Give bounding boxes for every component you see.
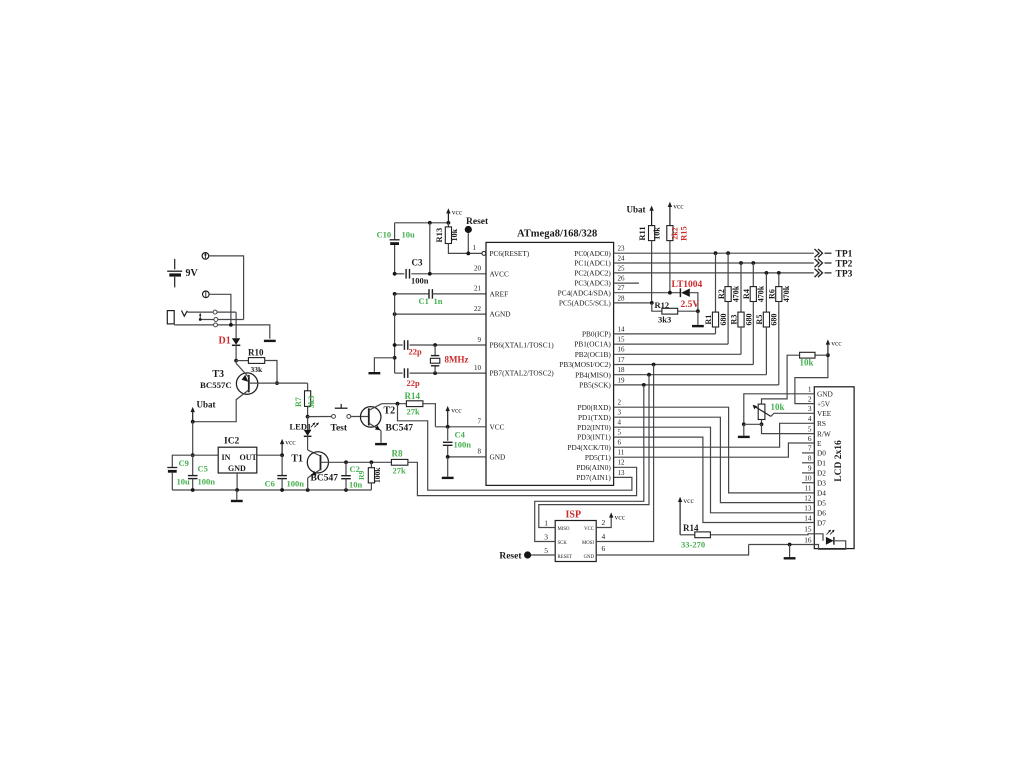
svg-text:R4: R4 bbox=[742, 289, 751, 299]
node C10 top bbox=[428, 221, 432, 225]
svg-text:TP1: TP1 bbox=[836, 250, 853, 260]
wire PD1 to LCD D5 bbox=[614, 417, 815, 502]
svg-text:PC4(ADC4/SDA): PC4(ADC4/SDA) bbox=[558, 288, 612, 297]
svg-text:13: 13 bbox=[804, 504, 812, 513]
svg-text:C3: C3 bbox=[412, 258, 423, 268]
wire PD2 to LCD D6 bbox=[614, 427, 815, 513]
svg-text:GND: GND bbox=[817, 390, 833, 399]
capacitor C6 100n bbox=[281, 455, 283, 475]
pin1 inversion bubble bbox=[482, 251, 486, 255]
svg-text:R5: R5 bbox=[755, 315, 764, 325]
wire LCD GND pin1 bbox=[744, 394, 815, 425]
wire VCC to LCD +5V pin2 bbox=[795, 355, 828, 403]
svg-text:14: 14 bbox=[804, 513, 812, 522]
svg-text:VEE: VEE bbox=[817, 409, 832, 418]
jack switch contact row bbox=[188, 311, 214, 313]
svg-text:PD7(AIN1): PD7(AIN1) bbox=[576, 473, 611, 482]
svg-text:4: 4 bbox=[808, 414, 812, 423]
capacitor C1 1n bbox=[395, 293, 429, 295]
wire PD3 to LCD D7 bbox=[614, 437, 815, 522]
svg-text:4: 4 bbox=[618, 419, 622, 427]
svg-text:1n: 1n bbox=[434, 296, 443, 306]
wire terminal1 to jack middle contact bbox=[209, 256, 244, 320]
svg-text:10k: 10k bbox=[450, 228, 459, 241]
svg-text:680: 680 bbox=[719, 314, 728, 326]
wire T2 collector to PD7 bbox=[398, 404, 632, 491]
svg-text:3k3: 3k3 bbox=[658, 315, 671, 325]
wire ISP GND bbox=[596, 545, 748, 556]
capacitor C3 100n bbox=[395, 273, 405, 275]
svg-text:11: 11 bbox=[804, 484, 811, 493]
Ubat arrow left bbox=[192, 410, 194, 421]
wire Test to T2 base bbox=[351, 416, 369, 418]
svg-text:LED1: LED1 bbox=[290, 422, 312, 432]
svg-text:5: 5 bbox=[618, 429, 622, 437]
svg-text:2: 2 bbox=[618, 399, 622, 407]
test point TP2 bbox=[815, 259, 820, 267]
svg-text:R9: R9 bbox=[357, 470, 366, 479]
ground at LCD backlight bbox=[789, 545, 791, 558]
svg-text:12: 12 bbox=[618, 459, 626, 467]
svg-text:PB4(MISO): PB4(MISO) bbox=[575, 370, 611, 379]
svg-text:PB7(XTAL2/TOSC2): PB7(XTAL2/TOSC2) bbox=[490, 369, 555, 378]
ground at LCD bbox=[743, 424, 745, 435]
wire PB3 row bbox=[614, 364, 754, 366]
svg-text:PB2(OC1B): PB2(OC1B) bbox=[575, 350, 612, 359]
VCC arrow at regulator output bbox=[281, 442, 283, 455]
junction jack-ground node bbox=[229, 323, 233, 327]
svg-text:4: 4 bbox=[602, 532, 606, 541]
test point TP3 bbox=[815, 269, 820, 277]
svg-text:PB5(SCK): PB5(SCK) bbox=[579, 381, 611, 390]
svg-text:GND: GND bbox=[228, 464, 246, 473]
terminal X1-1 bbox=[202, 253, 209, 260]
resistor R6 470k bbox=[778, 273, 780, 287]
svg-text:470k: 470k bbox=[782, 285, 791, 302]
svg-text:9: 9 bbox=[478, 336, 482, 344]
svg-text:1: 1 bbox=[544, 518, 548, 527]
svg-text:PD0(RXD): PD0(RXD) bbox=[578, 403, 612, 412]
svg-text:C6: C6 bbox=[265, 479, 275, 489]
wire IC2 OUT to VCC node bbox=[257, 454, 282, 456]
svg-text:R13: R13 bbox=[434, 228, 444, 243]
svg-text:vcc: vcc bbox=[831, 339, 842, 348]
svg-text:vcc: vcc bbox=[673, 202, 684, 211]
svg-text:T2: T2 bbox=[384, 406, 396, 417]
svg-text:D4: D4 bbox=[817, 489, 826, 498]
svg-text:R1: R1 bbox=[704, 315, 713, 325]
svg-text:PD3(INT1): PD3(INT1) bbox=[577, 433, 611, 442]
svg-text:TP3: TP3 bbox=[836, 269, 853, 279]
svg-text:6: 6 bbox=[602, 544, 606, 553]
wire AGND row bbox=[395, 313, 486, 315]
stub PC3 pin26 bbox=[614, 282, 639, 284]
node T3 base / R10 bbox=[275, 381, 279, 385]
svg-text:3: 3 bbox=[808, 404, 812, 413]
svg-text:100n: 100n bbox=[411, 276, 429, 286]
svg-text:C4: C4 bbox=[455, 430, 466, 440]
svg-text:ISP: ISP bbox=[566, 510, 582, 521]
svg-text:100k: 100k bbox=[373, 467, 382, 483]
VCC arrow at LCD bbox=[827, 343, 829, 355]
wire PD0 to LCD D4 bbox=[614, 407, 815, 493]
ground at jack bbox=[264, 340, 276, 342]
ground symbol main rail bbox=[236, 490, 238, 500]
svg-text:LT1004: LT1004 bbox=[672, 280, 703, 290]
wire ISP SCK to PB5 bbox=[535, 385, 644, 542]
svg-text:27: 27 bbox=[618, 284, 626, 292]
wire Ubat rail bbox=[192, 422, 194, 456]
node D1 cathode / T3 emitter bbox=[234, 359, 238, 363]
terminal X1-2 bbox=[203, 291, 210, 298]
VCC arrow at R14 backlight bbox=[679, 500, 681, 535]
svg-text:PD6(AIN0): PD6(AIN0) bbox=[576, 463, 611, 472]
capacitor C2 10n bbox=[345, 462, 347, 475]
svg-text:SCK: SCK bbox=[558, 541, 568, 546]
svg-text:16: 16 bbox=[618, 346, 626, 354]
wire ISP MISO to PB4 bbox=[539, 375, 649, 528]
svg-text:E: E bbox=[817, 439, 822, 448]
svg-text:11: 11 bbox=[618, 449, 625, 457]
svg-text:vcc: vcc bbox=[451, 406, 462, 415]
svg-text:D1: D1 bbox=[817, 459, 826, 468]
svg-text:PB3(MOSI/OC2): PB3(MOSI/OC2) bbox=[559, 360, 611, 369]
svg-text:33-270: 33-270 bbox=[681, 540, 705, 550]
LED backlight in LCD bbox=[814, 534, 823, 541]
svg-text:3: 3 bbox=[618, 409, 622, 417]
svg-text:Test: Test bbox=[331, 424, 348, 434]
resistor R4 470k bbox=[752, 263, 754, 287]
node T1 collector / C2 bbox=[344, 460, 348, 464]
wire PC0 row to TP1 bbox=[614, 252, 814, 254]
resistor R8 27k bbox=[391, 459, 408, 465]
svg-text:PC0(ADC0): PC0(ADC0) bbox=[574, 249, 611, 258]
svg-text:vcc: vcc bbox=[285, 438, 296, 447]
LCD module box bbox=[814, 387, 854, 549]
ground at T2 emitter bbox=[375, 443, 387, 445]
VCC arrow above R13 bbox=[447, 212, 449, 223]
svg-text:10: 10 bbox=[804, 474, 812, 483]
svg-text:20: 20 bbox=[474, 265, 482, 273]
svg-text:PC1(ADC1): PC1(ADC1) bbox=[574, 259, 611, 268]
svg-text:24: 24 bbox=[618, 254, 626, 262]
node T2 collector bbox=[382, 403, 407, 405]
svg-text:1: 1 bbox=[473, 244, 477, 252]
svg-text:D2: D2 bbox=[817, 469, 826, 478]
svg-text:PB0(ICP): PB0(ICP) bbox=[582, 330, 611, 339]
svg-text:T1: T1 bbox=[291, 454, 303, 465]
power jack J1 body bbox=[167, 311, 174, 324]
svg-text:R12: R12 bbox=[655, 300, 670, 310]
node IC2 IN bbox=[191, 453, 195, 457]
svg-text:22: 22 bbox=[474, 305, 482, 313]
svg-text:PC3(ADC3): PC3(ADC3) bbox=[574, 279, 611, 288]
transistor T1 BC547 bbox=[307, 452, 328, 473]
svg-text:25: 25 bbox=[618, 264, 626, 272]
svg-text:RS: RS bbox=[817, 419, 826, 428]
svg-text:IC2: IC2 bbox=[224, 437, 240, 447]
wire PB1 row bbox=[614, 343, 729, 345]
svg-text:22p: 22p bbox=[407, 378, 421, 388]
resistor R11 10k from Ubat bbox=[651, 209, 653, 226]
svg-text:LCD 2x16: LCD 2x16 bbox=[834, 440, 844, 482]
svg-text:3: 3 bbox=[544, 532, 548, 541]
svg-text:1: 1 bbox=[808, 385, 812, 394]
ISP header box bbox=[555, 521, 596, 562]
svg-text:R2: R2 bbox=[717, 289, 726, 299]
ground at R12 / LT1004 bbox=[697, 311, 699, 325]
svg-text:10k: 10k bbox=[771, 402, 785, 412]
svg-text:6: 6 bbox=[618, 439, 622, 447]
svg-text:AGND: AGND bbox=[490, 310, 511, 319]
svg-text:D6: D6 bbox=[817, 509, 826, 518]
wire top VCC rail bbox=[395, 222, 449, 224]
svg-text:PC2(ADC2): PC2(ADC2) bbox=[574, 269, 611, 278]
svg-text:10k: 10k bbox=[653, 227, 662, 240]
svg-text:R/W: R/W bbox=[817, 429, 831, 438]
svg-text:2.5V: 2.5V bbox=[681, 300, 700, 310]
svg-text:AREF: AREF bbox=[490, 290, 509, 299]
svg-text:R7: R7 bbox=[294, 397, 303, 407]
svg-text:10u: 10u bbox=[402, 230, 416, 240]
svg-text:9: 9 bbox=[808, 464, 812, 473]
wire IC2 GND pin bbox=[236, 473, 238, 490]
node Ubat rail / T3 collector bbox=[191, 420, 195, 424]
svg-text:19: 19 bbox=[618, 376, 626, 384]
svg-text:33k: 33k bbox=[251, 365, 264, 374]
jack middle contact row bbox=[200, 319, 214, 321]
svg-text:680: 680 bbox=[744, 314, 753, 326]
svg-text:5: 5 bbox=[808, 424, 812, 433]
ground at crystal bbox=[374, 358, 394, 372]
wire PC4 row bbox=[614, 292, 681, 294]
wire R/W to ground node bbox=[762, 424, 815, 433]
svg-text:GND: GND bbox=[584, 555, 595, 560]
svg-text:R14: R14 bbox=[405, 391, 421, 401]
svg-text:Reset: Reset bbox=[499, 552, 522, 562]
svg-text:Reset: Reset bbox=[466, 217, 489, 227]
svg-text:R15: R15 bbox=[679, 226, 689, 241]
svg-text:D0: D0 bbox=[817, 449, 826, 458]
svg-text:680: 680 bbox=[770, 314, 779, 326]
transistor T3 BC557C bbox=[236, 373, 257, 394]
wire LED1 to T1 base bbox=[308, 450, 321, 456]
ground at C4 bbox=[447, 457, 449, 477]
svg-text:PD4(XCK/T0): PD4(XCK/T0) bbox=[567, 443, 611, 452]
svg-text:ATmega8/168/328: ATmega8/168/328 bbox=[517, 229, 597, 240]
svg-text:R11: R11 bbox=[637, 226, 647, 240]
svg-text:470k: 470k bbox=[757, 285, 766, 302]
svg-text:TP2: TP2 bbox=[836, 259, 853, 269]
svg-text:17: 17 bbox=[618, 356, 626, 364]
svg-text:10n: 10n bbox=[349, 480, 363, 490]
svg-text:Ubat: Ubat bbox=[627, 205, 646, 215]
resistor R13 10k bbox=[447, 223, 449, 227]
crystal 8MHz bbox=[434, 345, 436, 355]
svg-text:7: 7 bbox=[808, 444, 812, 453]
svg-text:PD2(INT0): PD2(INT0) bbox=[577, 423, 611, 432]
capacitor C10 10u bbox=[394, 223, 396, 240]
svg-text:VCC: VCC bbox=[490, 422, 505, 431]
svg-text:14: 14 bbox=[618, 325, 626, 333]
node crystal gnd spur bbox=[393, 356, 397, 360]
svg-text:BC547: BC547 bbox=[311, 474, 339, 484]
svg-text:IN: IN bbox=[222, 453, 231, 462]
push button Test bbox=[308, 416, 332, 418]
diode D1 bbox=[235, 312, 237, 338]
svg-text:AVCC: AVCC bbox=[490, 269, 509, 278]
resistor R2 470k bbox=[727, 253, 729, 286]
wire PC1 row to TP2 bbox=[614, 262, 814, 264]
resistor R14 27k pullup bbox=[406, 401, 423, 407]
wire Reset to pin1 bbox=[467, 233, 469, 253]
svg-text:16: 16 bbox=[804, 535, 812, 544]
wire LCD pin16 to ground / ISP GND bbox=[749, 544, 815, 546]
transistor T2 BC547 bbox=[360, 407, 381, 428]
svg-text:C5: C5 bbox=[198, 464, 208, 474]
svg-text:RESET: RESET bbox=[558, 555, 573, 560]
svg-text:7: 7 bbox=[478, 418, 482, 426]
wire left rail to crystal bbox=[394, 294, 396, 373]
svg-text:100n: 100n bbox=[287, 479, 305, 489]
capacitor 22p upper bbox=[395, 344, 403, 346]
resistor 10k LCD contrast feed bbox=[815, 354, 828, 356]
svg-text:26: 26 bbox=[618, 275, 626, 283]
capacitor C4 100n bbox=[447, 427, 449, 441]
wire trimmer bottom to ground node bbox=[761, 420, 763, 425]
svg-text:27k: 27k bbox=[407, 407, 421, 417]
resistor R14 33-270 backlight bbox=[680, 534, 695, 536]
svg-text:15: 15 bbox=[804, 525, 812, 534]
svg-text:R8: R8 bbox=[392, 449, 403, 459]
trimmer 10k contrast bbox=[758, 404, 765, 419]
svg-text:C1: C1 bbox=[419, 296, 429, 306]
svg-text:C9: C9 bbox=[179, 458, 189, 468]
svg-text:GND: GND bbox=[490, 453, 506, 462]
svg-text:T3: T3 bbox=[212, 369, 224, 380]
battery 9V bbox=[174, 259, 176, 269]
wire PB5 row bbox=[614, 384, 779, 386]
resistor R9 100k bbox=[370, 462, 372, 467]
svg-text:18: 18 bbox=[618, 366, 626, 374]
resistor R5 680 bbox=[765, 273, 767, 312]
svg-text:R6: R6 bbox=[768, 289, 777, 299]
svg-text:BC547: BC547 bbox=[386, 424, 414, 434]
resistor R3 680 bbox=[740, 263, 742, 312]
wire PB2 row bbox=[614, 353, 741, 355]
resistor R12 3k3 bbox=[652, 303, 662, 311]
svg-text:28: 28 bbox=[618, 294, 626, 302]
wire PC2 row to TP3 bbox=[614, 272, 814, 274]
capacitor C5 100n bbox=[192, 455, 194, 475]
capacitor 22p lower bbox=[395, 372, 403, 374]
wire ISP MOSI to PB3 bbox=[596, 365, 653, 542]
microcontroller U1 ATmega8/168/328 box bbox=[486, 242, 614, 485]
svg-text:+5V: +5V bbox=[817, 399, 831, 408]
svg-text:vcc: vcc bbox=[683, 496, 694, 505]
voltage regulator IC2 bbox=[193, 454, 219, 456]
node T1 collector / R9 bbox=[370, 460, 374, 464]
svg-text:2: 2 bbox=[808, 394, 812, 403]
jack sleeve contact row bbox=[174, 324, 213, 326]
svg-text:vcc: vcc bbox=[615, 513, 626, 522]
svg-text:PB1(OC1A): PB1(OC1A) bbox=[574, 340, 611, 349]
svg-text:D7: D7 bbox=[817, 518, 826, 527]
svg-text:10k: 10k bbox=[800, 358, 814, 368]
test point TP1 bbox=[815, 249, 820, 257]
svg-text:R10: R10 bbox=[248, 348, 264, 358]
svg-text:8: 8 bbox=[478, 448, 482, 456]
svg-text:2: 2 bbox=[602, 518, 606, 527]
svg-text:MISO: MISO bbox=[558, 527, 571, 532]
svg-text:PD1(TXD): PD1(TXD) bbox=[578, 413, 611, 422]
wire PB4 row bbox=[614, 374, 767, 376]
svg-text:23: 23 bbox=[618, 245, 626, 253]
ground rail bottom left bbox=[172, 489, 371, 491]
svg-text:10: 10 bbox=[474, 364, 482, 372]
svg-text:BC557C: BC557C bbox=[200, 380, 232, 390]
wire PC5 row bbox=[614, 302, 652, 304]
svg-text:PB6(XTAL1/TOSC1): PB6(XTAL1/TOSC1) bbox=[490, 341, 555, 350]
Reset net dot at ISP bbox=[531, 554, 555, 556]
svg-text:R3: R3 bbox=[730, 315, 739, 325]
svg-text:Ubat: Ubat bbox=[197, 400, 216, 410]
VCC arrow at ISP bbox=[596, 517, 611, 528]
wire terminal2 to jack bottom contact bbox=[209, 294, 231, 325]
resistor R7 3k3 bbox=[307, 383, 309, 391]
resistor R1 680 bbox=[715, 253, 717, 312]
wire GND pin8 row bbox=[448, 456, 486, 458]
svg-text:VCC: VCC bbox=[584, 527, 594, 532]
svg-text:470k: 470k bbox=[731, 285, 740, 302]
svg-text:C10: C10 bbox=[377, 230, 392, 240]
svg-text:D5: D5 bbox=[817, 498, 826, 507]
svg-text:22p: 22p bbox=[409, 347, 423, 357]
svg-text:D1: D1 bbox=[219, 336, 231, 347]
svg-text:100n: 100n bbox=[454, 440, 472, 450]
resistor R15 2k2 from VCC bbox=[669, 205, 671, 225]
svg-text:8MHz: 8MHz bbox=[445, 355, 469, 365]
svg-text:13: 13 bbox=[618, 469, 626, 477]
node VCC at C6 bbox=[280, 453, 284, 457]
svg-text:8: 8 bbox=[808, 454, 812, 463]
svg-text:12: 12 bbox=[804, 493, 812, 502]
svg-text:15: 15 bbox=[618, 336, 626, 344]
wire PD5 to LCD E bbox=[614, 443, 815, 457]
reference diode LT1004 2.5V bbox=[679, 288, 681, 297]
svg-text:3k3: 3k3 bbox=[307, 396, 316, 408]
svg-text:R14: R14 bbox=[683, 523, 699, 533]
wire vertical to AVCC bbox=[429, 223, 431, 274]
svg-text:D3: D3 bbox=[817, 479, 826, 488]
jack switch arrow bbox=[199, 318, 202, 321]
wire PD4 to LCD RS bbox=[614, 423, 815, 447]
svg-text:OUT: OUT bbox=[240, 453, 258, 462]
wire R8 to PD6 bbox=[408, 462, 637, 495]
svg-text:100n: 100n bbox=[198, 477, 216, 487]
svg-text:21: 21 bbox=[474, 285, 482, 293]
VCC arrow at pin7 bbox=[447, 409, 449, 426]
svg-text:PD5(T1): PD5(T1) bbox=[585, 453, 612, 462]
svg-text:MOSI: MOSI bbox=[582, 541, 594, 546]
wire PB0 row bbox=[614, 333, 716, 335]
svg-text:27k: 27k bbox=[393, 466, 407, 476]
node R7 / Test / LED1 bbox=[306, 415, 310, 419]
svg-text:6: 6 bbox=[808, 434, 812, 443]
Reset net dot top bbox=[465, 226, 472, 233]
svg-text:vcc: vcc bbox=[452, 208, 463, 217]
LED1 bbox=[307, 417, 309, 430]
